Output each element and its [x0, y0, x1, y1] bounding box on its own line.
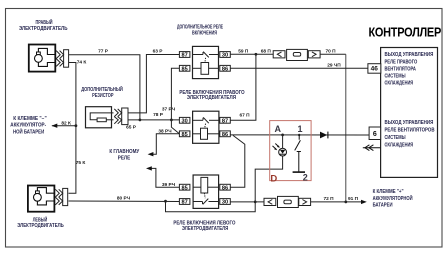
wire 70P fuse to corner [320, 53, 346, 55]
relay K2 pin 30 [179, 117, 190, 124]
svg-text:РЕЛЕ: РЕЛЕ [118, 156, 131, 162]
svg-text:ЭЛЕКТРОДВИГАТЕЛЬ: ЭЛЕКТРОДВИГАТЕЛЬ [17, 223, 64, 229]
arrow out of controller below pin 6 [363, 145, 381, 151]
svg-text:РЕЛЕ ПРАВОГО: РЕЛЕ ПРАВОГО [385, 59, 418, 65]
svg-text:30: 30 [222, 53, 228, 59]
wire 29CHP relay1 pin86 to controller pin46 [230, 67, 368, 69]
wire 37RCH relay1 pin85 down to relay2 pin85 [171, 68, 179, 134]
svg-text:ЭЛЕКТРОДВИГАТЕЛЯ: ЭЛЕКТРОДВИГАТЕЛЯ [187, 95, 237, 101]
relay K3 left motor relay [193, 175, 219, 208]
svg-text:75 К: 75 К [76, 160, 86, 166]
relay K1 pin 30 [220, 52, 231, 59]
controller pin 46 [368, 64, 381, 73]
motor M1 right electric motor box [29, 45, 56, 72]
wire bypass under relay3 [166, 201, 256, 212]
svg-text:ВКЛЮЧЕНИЯ: ВКЛЮЧЕНИЯ [192, 30, 217, 36]
wire 59P/68P/70P relay1 pin30 to fuse to vertical [230, 53, 273, 55]
svg-text:29 ЧП: 29 ЧП [327, 62, 341, 68]
label right electric motor [19, 18, 68, 32]
svg-text:ОХЛАЖДЕНИЯ: ОХЛАЖДЕНИЯ [385, 81, 414, 87]
label left motor relay [173, 220, 235, 231]
svg-text:74 К: 74 К [77, 60, 87, 66]
wire 63P resistor to relay1 pin87 [128, 55, 179, 113]
svg-text:86: 86 [222, 185, 228, 191]
resistor R additional resistor box [86, 107, 114, 128]
svg-text:68 П: 68 П [261, 48, 272, 54]
svg-text:72 П: 72 П [323, 196, 334, 202]
junction LED branch node A [281, 134, 284, 137]
wire vertical 70P to 91P junction [345, 54, 347, 202]
svg-text:91 П: 91 П [348, 196, 359, 202]
red dashed region A-1-D-2 [270, 121, 311, 181]
svg-text:1: 1 [298, 124, 303, 134]
svg-text:A: A [275, 124, 282, 134]
svg-text:38 РЧ: 38 РЧ [158, 129, 172, 135]
relay K2 pin 86 [220, 131, 231, 138]
arrow to battery minus [52, 124, 58, 128]
label to main relay [109, 149, 140, 162]
wire 80RCH motor2 to relay3 pin87 [69, 200, 180, 203]
wire 38RCH relay2 pin85 to main relay arrow [152, 134, 180, 154]
junction 82K/75K [75, 124, 78, 127]
svg-text:78 Р: 78 Р [153, 112, 164, 118]
svg-text:НОЙ БАТАРЕИ: НОЙ БАТАРЕИ [13, 127, 45, 135]
svg-text:80 РЧ: 80 РЧ [117, 196, 131, 202]
svg-text:АККУМУЛЯТОР-: АККУМУЛЯТОР- [10, 123, 46, 129]
svg-text:2: 2 [303, 173, 308, 183]
wire 65P/78P resistor to relay2 pin30 [128, 119, 179, 121]
controller output text fans relay [385, 120, 435, 148]
junction 59P/68P/67P [255, 53, 258, 56]
svg-text:ПРАВЫЙ: ПРАВЫЙ [36, 18, 53, 26]
svg-text:87: 87 [181, 53, 187, 59]
svg-text:82 К: 82 К [61, 120, 71, 126]
wire 67P relay2 pin87 up to top junction [230, 54, 256, 120]
svg-text:86: 86 [222, 132, 228, 138]
motor M2 left electric motor box [28, 186, 55, 212]
wire 74K/75K motor1 to motor2 [69, 63, 76, 194]
label left electric motor [17, 216, 64, 229]
label additional switching relay [177, 25, 223, 37]
junction 91P [344, 201, 347, 204]
relay K1 pin 85 [179, 65, 190, 72]
motor M1 connector [56, 50, 68, 67]
svg-text:ВЕНТИЛЯТОРА: ВЕНТИЛЯТОРА [385, 66, 417, 72]
relay K1 pin 86 [220, 65, 231, 72]
svg-text:30: 30 [181, 118, 187, 124]
wire 77P motor1 to resistor [69, 55, 140, 120]
junction 77P/78P [139, 119, 142, 122]
svg-text:ДОПОЛНИТЕЛЬНЫЙ: ДОПОЛНИТЕЛЬНЫЙ [81, 85, 123, 93]
wire bottom 72P/91P relay3 pin30 to fuse to battery [230, 201, 264, 203]
LED optocoupler [273, 144, 287, 157]
wire LED branch return [282, 135, 284, 148]
fuse F2 bottom fuse with connectors [264, 196, 311, 207]
relay K2 pin 85 [179, 131, 190, 138]
svg-text:85: 85 [181, 132, 187, 138]
svg-text:65 Р: 65 Р [126, 124, 137, 130]
svg-text:АККУМУЛЯТОРНОЙ: АККУМУЛЯТОРНОЙ [373, 194, 413, 202]
wire 39RCH relay3 pin85 to main relay arrow [150, 168, 180, 187]
svg-text:70 П: 70 П [325, 48, 336, 54]
diode to controller pin 6 [320, 132, 328, 139]
svg-text:39 РЧ: 39 РЧ [162, 182, 176, 188]
svg-text:37 РЧ: 37 РЧ [162, 106, 176, 112]
svg-text:87: 87 [181, 200, 187, 206]
svg-text:ОХЛАЖДЕНИЯ: ОХЛАЖДЕНИЯ [385, 142, 414, 148]
junction switch branch node 1 [298, 134, 300, 136]
svg-text:К КЛЕММЕ "−": К КЛЕММЕ "−" [13, 116, 47, 122]
relay K3 pin 86 [220, 184, 231, 191]
label additional resistor [81, 85, 123, 99]
svg-text:30: 30 [222, 200, 228, 206]
svg-text:77 Р: 77 Р [98, 49, 109, 55]
svg-text:D: D [270, 173, 277, 184]
svg-text:59 П: 59 П [238, 48, 249, 54]
label to battery plus terminal [373, 189, 413, 209]
svg-text:РЕЛЕ ВЕНТИЛЯТОРОВ: РЕЛЕ ВЕНТИЛЯТОРОВ [385, 128, 435, 134]
svg-text:63 Р: 63 Р [153, 49, 164, 55]
relay K1 pin 87 [179, 52, 190, 59]
svg-text:К КЛЕММЕ "+": К КЛЕММЕ "+" [373, 189, 405, 195]
relay K3 pin 87 [179, 199, 190, 206]
switch contact inside red box [293, 135, 305, 172]
svg-text:РЕЗИСТОР: РЕЗИСТОР [92, 93, 114, 99]
svg-text:СИСТЕМЫ: СИСТЕМЫ [385, 135, 406, 141]
wire relay2 pin86 branch to relay3 pin86 [230, 135, 245, 187]
arrow to main relay 2 [146, 166, 152, 170]
junction 80RCH split [164, 200, 167, 203]
svg-text:46: 46 [371, 66, 379, 73]
svg-text:К ГЛАВНОМУ: К ГЛАВНОМУ [109, 149, 140, 155]
svg-text:87: 87 [222, 118, 228, 124]
relay K2 right motor relay [193, 111, 219, 143]
svg-text:67 П: 67 П [239, 112, 250, 118]
svg-text:6: 6 [373, 131, 377, 138]
controller pin 6 [369, 127, 381, 140]
svg-text:БАТАРЕИ: БАТАРЕИ [373, 203, 393, 209]
junction 37RCH/78P [170, 119, 173, 122]
controller box [381, 48, 438, 178]
relay K3 pin 30 [220, 199, 231, 206]
svg-text:86: 86 [222, 66, 228, 72]
label right motor relay [179, 90, 244, 101]
arrow to main relay 1 [148, 152, 154, 156]
wire 82K battery arrow [52, 125, 76, 127]
motor M2 connector [55, 188, 67, 205]
fuse F1 top fuse with connectors [273, 49, 320, 60]
svg-text:ВЫХОД УПРАВЛЕНИЯ: ВЫХОД УПРАВЛЕНИЯ [385, 52, 434, 58]
svg-text:ЭЛЕКТРОДВИГАТЕЛЬ: ЭЛЕКТРОДВИГАТЕЛЬ [19, 26, 68, 32]
controller output text right fan relay [385, 52, 434, 86]
svg-text:85: 85 [181, 66, 187, 72]
wire relay2 pin86 to controller pin6 [230, 134, 369, 136]
svg-text:СИСТЕМЫ: СИСТЕМЫ [385, 74, 406, 80]
svg-text:КОНТРОЛЛЕР: КОНТРОЛЛЕР [369, 26, 442, 40]
svg-text:ВЫХОД УПРАВЛЕНИЯ: ВЫХОД УПРАВЛЕНИЯ [385, 120, 434, 126]
svg-text:ЭЛЕКТРОДВИГАТЕЛЯ: ЭЛЕКТРОДВИГАТЕЛЯ [182, 226, 229, 232]
label to battery minus terminal [10, 116, 47, 136]
relay K1 additional switching relay [193, 46, 219, 78]
arrow to battery plus [361, 200, 367, 204]
relay K2 pin 87 [220, 117, 231, 124]
relay K3 pin 85 [179, 184, 190, 191]
svg-text:85: 85 [181, 185, 187, 191]
junction bottom fuse left [254, 201, 257, 204]
resistor connector [114, 108, 128, 125]
